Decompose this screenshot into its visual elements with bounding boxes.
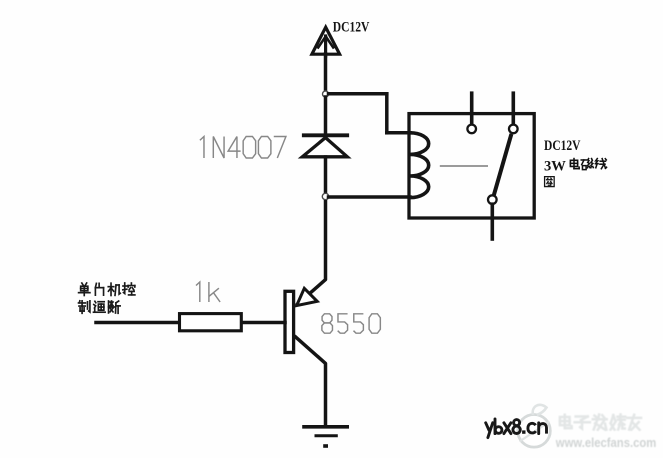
- watermark logo circle: [518, 405, 551, 447]
- wire R1 to Q1 base: [243, 321, 286, 325]
- node J1 junction: [323, 91, 329, 97]
- label 圈: [545, 177, 555, 187]
- power symbol VCC arrow DC12V: [312, 27, 340, 56]
- transistor Q1 emitter arrow: [297, 288, 318, 305]
- relay K1 contact pin left: [470, 93, 474, 124]
- svg-text:DC12V: DC12V: [544, 138, 581, 154]
- relay K1 common pin: [490, 204, 494, 239]
- wire diode anode to node J2: [324, 157, 328, 197]
- watermark text ybx8.cn: [486, 419, 547, 438]
- watermark text www.elecfans.com: [555, 435, 656, 450]
- relay K1 case: [409, 114, 534, 218]
- relay K1 contact pin right: [511, 93, 515, 124]
- relay K1 coil: [410, 133, 429, 198]
- ground bar 3: [323, 444, 328, 448]
- diode D1 1N4007 cathode bar: [304, 133, 347, 137]
- transistor Q1 collector lead: [294, 336, 325, 426]
- transistor Q1 base bar: [285, 291, 294, 352]
- wire node J2 down to Q1 emitter: [296, 200, 326, 305]
- watermark text 电子发烧友: [560, 415, 641, 430]
- wire VCC arrow down to node J1: [324, 54, 328, 94]
- relay K1 contact terminal right: [509, 125, 518, 134]
- ground bar 2: [316, 434, 336, 437]
- svg-text:www.elecfans.com: www.elecfans.com: [555, 435, 656, 450]
- node J2 junction: [322, 193, 328, 199]
- label 单片机控制通断 line1: [79, 283, 135, 296]
- relay K1 common terminal: [488, 195, 497, 204]
- wire node J1 down to diode cathode: [324, 97, 328, 133]
- label 1k: [196, 282, 220, 302]
- resistor R1 1k body: [180, 314, 242, 331]
- diode D1 1N4007 body: [302, 138, 347, 157]
- wire node J2 to relay coil bottom: [329, 195, 411, 199]
- label DC12V top: [333, 18, 370, 35]
- label 1N4007: [200, 137, 286, 159]
- label 8550: [322, 314, 380, 333]
- svg-text:3W: 3W: [544, 158, 566, 174]
- label 3W: [544, 158, 566, 174]
- label 电磁线: [570, 159, 606, 170]
- label DC12V relay coil rating: [544, 138, 581, 154]
- wire node J1 to relay coil top: [329, 94, 411, 133]
- relay K1 switch blade: [494, 134, 512, 195]
- label 单片机控制通断 line2: [79, 301, 121, 314]
- relay K1 contact terminal left: [467, 125, 476, 134]
- svg-text:DC12V: DC12V: [333, 18, 370, 35]
- wire input stub: [96, 321, 179, 325]
- ground bar 1: [304, 425, 347, 429]
- relay K1 actuator link: [440, 165, 488, 167]
